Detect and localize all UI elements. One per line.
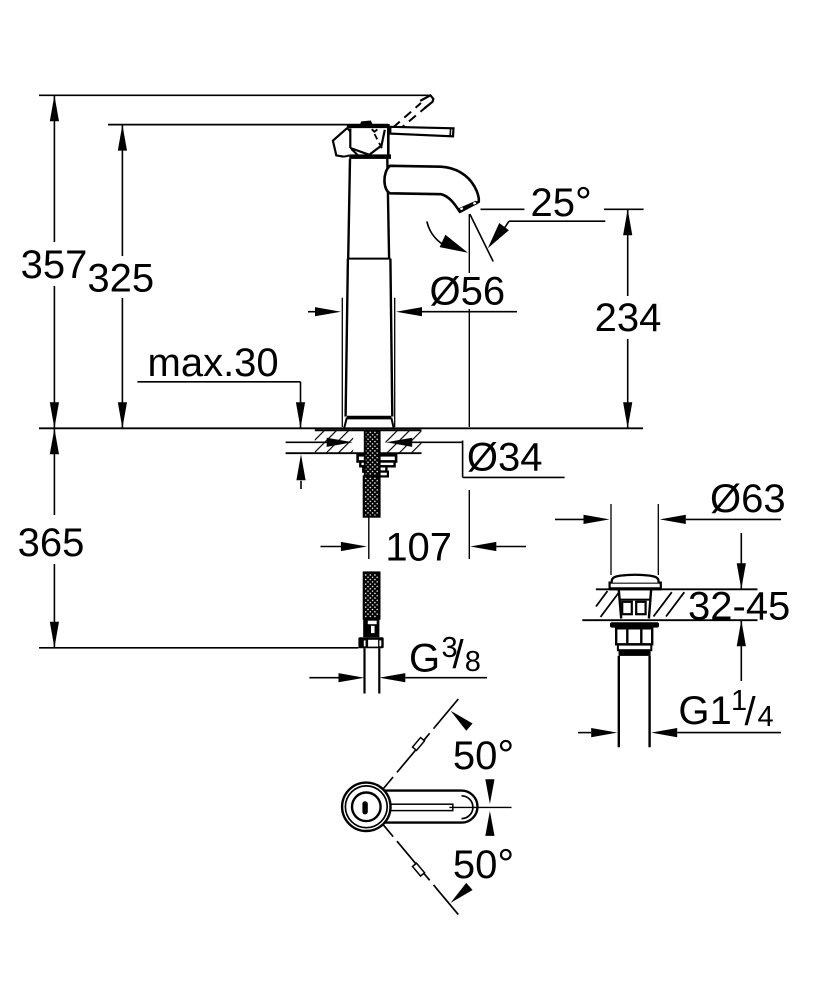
svg-text:357: 357 [21, 243, 88, 287]
svg-text:32-45: 32-45 [688, 584, 790, 628]
svg-text:25°: 25° [531, 178, 592, 225]
svg-text:Ø56: Ø56 [430, 270, 506, 314]
svg-text:107: 107 [385, 526, 452, 570]
svg-text:325: 325 [87, 257, 154, 301]
svg-text:/: / [453, 633, 465, 677]
svg-text:8: 8 [465, 646, 481, 678]
svg-text:G: G [409, 637, 440, 681]
svg-text:Ø63: Ø63 [710, 477, 786, 521]
svg-text:50°: 50° [453, 731, 514, 778]
svg-text:234: 234 [595, 296, 662, 340]
svg-text:/: / [745, 690, 757, 734]
svg-text:max.30: max.30 [148, 341, 279, 385]
svg-text:50°: 50° [453, 840, 514, 887]
svg-text:G1: G1 [678, 689, 731, 733]
svg-text:365: 365 [18, 521, 85, 565]
svg-text:Ø34: Ø34 [467, 436, 543, 480]
svg-text:4: 4 [758, 701, 774, 733]
